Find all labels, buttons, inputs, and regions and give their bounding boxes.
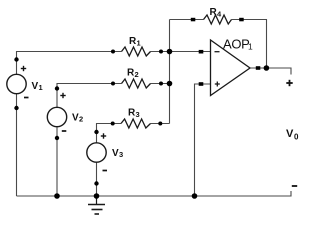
resistor R1	[122, 36, 151, 56]
wire V1 bottom	[16, 94, 18, 197]
svg-text:3: 3	[119, 150, 123, 159]
node: V1 minus terminal	[14, 106, 18, 110]
node: R1 right terminal	[159, 50, 163, 54]
node: output/feedback junction	[264, 65, 270, 71]
node: V2 plus terminal	[55, 86, 59, 90]
resistor R3	[121, 108, 151, 129]
resistor R4 (feedback)	[204, 7, 232, 24]
plus sign inside	[215, 83, 220, 85]
svg-text:1: 1	[248, 42, 253, 52]
node: V1 plus terminal	[14, 57, 18, 61]
node: V2 minus terminal	[55, 136, 59, 140]
resistor R2	[122, 68, 151, 89]
wire V3 bottom	[96, 162, 98, 196]
wire top feedback left segment	[170, 19, 204, 21]
node: op-amp minus pin	[199, 50, 204, 54]
wire V2 top to R2 row	[57, 84, 122, 108]
node: R3 right terminal	[158, 122, 162, 126]
node: R4 right terminal	[239, 18, 244, 22]
svg-text:AOP: AOP	[223, 37, 250, 52]
node: V3 minus terminal	[94, 181, 98, 185]
node: ground rail junction	[94, 193, 100, 199]
svg-text:V: V	[72, 113, 79, 124]
node: op-amp output pin	[256, 66, 260, 70]
wire junction column	[169, 20, 171, 124]
wire op-amp plus input	[195, 84, 211, 196]
output minus terminal	[292, 185, 297, 187]
svg-text:1: 1	[39, 83, 43, 92]
node: V3 plus terminal	[94, 130, 98, 134]
svg-text:4: 4	[217, 10, 222, 19]
label V0	[286, 128, 299, 142]
svg-text:2: 2	[79, 115, 83, 124]
svg-text:V: V	[286, 128, 294, 140]
wire V1 top to R1 row	[17, 52, 122, 75]
wire V2 bottom	[56, 127, 58, 197]
svg-text:2: 2	[135, 70, 139, 79]
svg-text:1: 1	[137, 39, 141, 48]
wire top feedback right segment	[232, 20, 267, 69]
node: V2 bottom rail junction	[54, 193, 60, 199]
node: R3 left terminal	[111, 122, 115, 126]
ground	[88, 196, 105, 214]
svg-text:3: 3	[136, 110, 140, 119]
wire R2 to junction column	[151, 83, 170, 85]
source V2	[47, 93, 83, 131]
source V1	[7, 66, 43, 98]
wire R1 to op-amp minus input	[151, 51, 211, 53]
svg-text:V: V	[32, 81, 39, 92]
wire op-amp output	[250, 68, 291, 75]
svg-text:0: 0	[294, 133, 299, 142]
node: R2 right terminal	[159, 82, 163, 86]
source V3	[87, 133, 123, 170]
node: junction R1/column	[167, 49, 173, 55]
node: junction R2/column	[167, 81, 173, 87]
op-amp U1 AOP1	[211, 37, 254, 96]
wire R3 to junction column	[151, 123, 170, 125]
svg-text:V: V	[112, 148, 119, 159]
node: R2 left terminal	[111, 82, 115, 86]
node: plus-input bottom rail junction	[192, 193, 198, 199]
minus sign inside	[215, 51, 220, 53]
node: R4 left terminal	[191, 18, 196, 22]
wire V3 top to R3 row	[97, 124, 122, 143]
wire bottom rail	[17, 191, 292, 196]
node: R1 left terminal	[111, 50, 115, 54]
output plus terminal	[286, 80, 292, 86]
node: op-amp plus pin	[199, 82, 204, 86]
